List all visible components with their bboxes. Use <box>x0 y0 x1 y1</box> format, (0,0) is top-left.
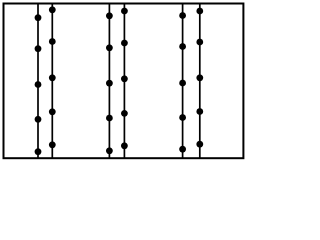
junction W5-D <box>179 114 186 121</box>
junction W3-A <box>106 12 113 19</box>
junction W1-E <box>35 148 42 155</box>
junction W1-D <box>35 116 42 123</box>
junction W6-A <box>196 8 203 15</box>
wire W4 <box>123 4 125 159</box>
junction W3-C <box>106 80 113 87</box>
junction W1-C <box>35 81 42 88</box>
junction W3-E <box>106 147 113 154</box>
junction W4-C <box>121 75 128 82</box>
junction W6-C <box>196 74 203 81</box>
junction W6-D <box>196 108 203 115</box>
junction W1-A <box>35 14 42 21</box>
junction W4-B <box>121 40 128 47</box>
wire W1 <box>37 4 39 159</box>
junction W4-D <box>121 110 128 117</box>
junction W4-E <box>121 142 128 149</box>
junction W6-B <box>196 39 203 46</box>
junction W5-A <box>179 12 186 19</box>
junction W5-B <box>179 43 186 50</box>
wire W3 <box>108 4 110 159</box>
junction W4-A <box>121 8 128 15</box>
junction W3-B <box>106 44 113 51</box>
junction W2-B <box>49 38 56 45</box>
junction W2-D <box>49 108 56 115</box>
junction W3-D <box>106 115 113 122</box>
junction W1-B <box>35 45 42 52</box>
junction W5-C <box>179 80 186 87</box>
wire W6 <box>199 4 201 159</box>
junction W6-E <box>196 141 203 148</box>
junction W2-A <box>49 6 56 13</box>
junction W2-E <box>49 141 56 148</box>
junction W5-E <box>179 146 186 153</box>
junction W2-C <box>49 74 56 81</box>
wire W2 <box>51 4 53 159</box>
wire W5 <box>182 4 184 159</box>
